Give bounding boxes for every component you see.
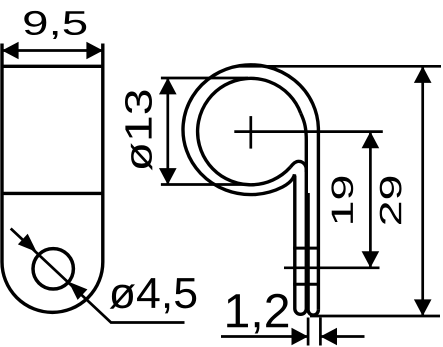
label diam 4,5 bbox=[110, 278, 197, 313]
arrow 19 top bbox=[362, 132, 380, 149]
dim 1,2 left extension bbox=[307, 318, 310, 346]
label 29 bbox=[380, 177, 402, 224]
hole circle bbox=[33, 249, 73, 289]
dim 1,2 right arrow line bbox=[320, 335, 364, 338]
dim 29 line bbox=[421, 66, 424, 316]
hole edge tick top (front view) bbox=[293, 247, 320, 250]
arrow o13 top bbox=[159, 78, 177, 95]
side view right edge + extension line bbox=[101, 44, 104, 263]
arrow 9,5 left bbox=[2, 42, 19, 60]
dim 9,5 line bbox=[2, 49, 103, 52]
side view bottom round end bbox=[2, 262, 103, 312]
arrow 29 top bbox=[414, 66, 432, 83]
arrow o13 bottom bbox=[159, 168, 177, 185]
dim o13 line bbox=[166, 78, 169, 185]
arrow 9,5 right bbox=[86, 42, 103, 60]
front view outer band: vertical right edge + outer circle + tail bbox=[183, 65, 318, 310]
front view front tab layer left edge + bottom U1 bbox=[290, 161, 306, 314]
label diam 13 bbox=[125, 91, 152, 171]
center cross horizontal + dim 19 top extension bbox=[234, 130, 382, 133]
dim o13 top extension bbox=[161, 77, 248, 80]
arrow 1,2 left bbox=[292, 328, 309, 346]
arrow 19 bottom bbox=[362, 251, 380, 268]
hole edge tick bottom (front view) bbox=[293, 283, 320, 286]
dim 19 bottom extension (hole centerline) bbox=[284, 266, 380, 269]
dim 1,2 left arrow line bbox=[221, 335, 308, 338]
front view back tab layer inner edge + bottom U2 bbox=[308, 193, 318, 315]
arrow 29 bottom bbox=[414, 299, 432, 316]
center cross vertical bbox=[249, 116, 252, 149]
label 1,2 bbox=[227, 294, 288, 334]
dim 29 bottom extension bbox=[310, 315, 440, 318]
side view separator line bbox=[1, 192, 105, 195]
hole leader arrow upper bbox=[18, 234, 37, 252]
front view inner circle to strip S-join bbox=[301, 113, 307, 172]
dim 29 top extension bbox=[235, 65, 441, 68]
dim 1,2 right extension bbox=[319, 318, 322, 346]
front view inner circle bbox=[198, 78, 301, 184]
side view left edge + extension line bbox=[0, 44, 3, 263]
hole leader line bbox=[11, 229, 185, 323]
dim o13 bottom extension bbox=[161, 183, 248, 186]
hole leader arrow lower bbox=[69, 282, 88, 300]
arrow 1,2 right bbox=[320, 328, 337, 346]
label 9,5 bbox=[24, 11, 86, 39]
dim 19 line bbox=[369, 132, 372, 268]
side view body top edge bbox=[1, 65, 105, 68]
label 19 bbox=[331, 177, 353, 223]
